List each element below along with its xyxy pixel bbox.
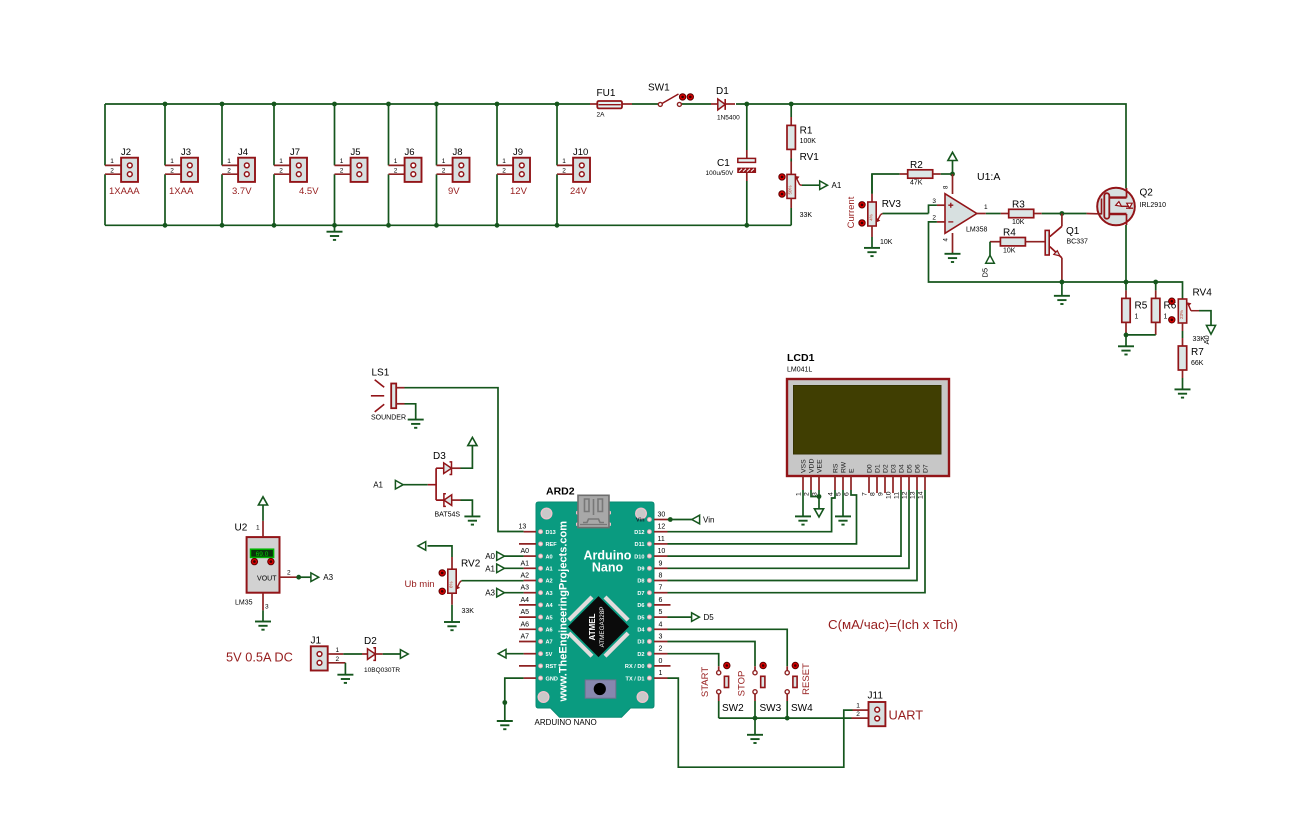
- svg-text:D5: D5: [907, 464, 914, 473]
- svg-text:D2: D2: [637, 652, 644, 658]
- wire LCD D4 to D10: [668, 490, 902, 556]
- ground R7: [1175, 389, 1191, 397]
- svg-text:J4: J4: [238, 147, 248, 158]
- ground RV3: [864, 248, 880, 256]
- connector J8: [437, 147, 470, 197]
- svg-text:SOUNDER: SOUNDER: [371, 415, 406, 422]
- arduino left pin stubs: [519, 532, 536, 678]
- svg-text:8: 8: [870, 492, 877, 496]
- svg-text:A1: A1: [521, 560, 530, 567]
- wire LS1 to D13: [405, 388, 524, 532]
- svg-text:VDD: VDD: [809, 459, 816, 473]
- svg-text:D5: D5: [981, 268, 990, 278]
- svg-text:2: 2: [287, 570, 291, 577]
- junction dots switch rail: [753, 716, 790, 721]
- svg-text:3: 3: [932, 198, 936, 205]
- svg-text:VSS: VSS: [801, 459, 808, 473]
- svg-text:J3: J3: [181, 147, 191, 158]
- svg-text:A3: A3: [485, 589, 495, 598]
- svg-text:A7: A7: [546, 640, 553, 646]
- text 5V 0.5A DC: [226, 650, 293, 665]
- svg-text:SW1: SW1: [648, 83, 670, 94]
- svg-text:A5: A5: [521, 609, 530, 616]
- svg-text:4: 4: [659, 621, 663, 628]
- svg-text:A1: A1: [485, 564, 495, 573]
- svg-text:30: 30: [658, 512, 666, 519]
- svg-text:R7: R7: [1191, 347, 1204, 358]
- resistor R7: [1178, 331, 1204, 389]
- ground U1 pin4: [945, 253, 961, 263]
- svg-text:J5: J5: [351, 147, 361, 158]
- svg-text:SW2: SW2: [722, 703, 744, 714]
- connector J3: [165, 147, 198, 197]
- svg-text:1N5400: 1N5400: [717, 115, 740, 122]
- svg-text:1: 1: [442, 158, 446, 165]
- svg-text:11: 11: [894, 492, 901, 499]
- resistor R1: [787, 104, 816, 159]
- svg-text:R3: R3: [1012, 200, 1025, 211]
- svg-text:3.7V: 3.7V: [232, 186, 252, 197]
- svg-text:4%: 4%: [868, 214, 873, 221]
- resistor R5: [1122, 282, 1148, 335]
- potentiometer RV2: [405, 557, 524, 615]
- resistor R6: [1152, 282, 1177, 335]
- svg-text:Q1: Q1: [1066, 226, 1080, 237]
- svg-text:J11: J11: [868, 691, 884, 702]
- resistor R4: [990, 228, 1045, 255]
- svg-text:1: 1: [1135, 314, 1139, 321]
- svg-text:BC337: BC337: [1067, 239, 1089, 246]
- svg-text:A0: A0: [521, 548, 530, 555]
- svg-text:2: 2: [170, 167, 174, 174]
- wire Q2 source: [1125, 225, 1127, 282]
- svg-text:D0: D0: [867, 464, 874, 473]
- svg-text:1: 1: [340, 158, 344, 165]
- svg-text:U1:A: U1:A: [977, 171, 1000, 183]
- svg-text:FU1: FU1: [597, 88, 616, 99]
- connector J1: [311, 636, 346, 671]
- ground Q1 emitter: [1054, 282, 1070, 304]
- svg-text:A1: A1: [546, 567, 553, 573]
- svg-text:VOUT: VOUT: [257, 575, 277, 582]
- wire LCD E to D11: [668, 490, 857, 544]
- wire LS1 pin2 to ground: [405, 404, 416, 420]
- svg-text:5V: 5V: [546, 652, 553, 658]
- svg-text:14: 14: [918, 491, 925, 499]
- svg-text:2: 2: [279, 167, 283, 174]
- power arrow D3: [461, 437, 478, 468]
- svg-text:6: 6: [844, 492, 851, 496]
- svg-text:D5: D5: [704, 613, 715, 622]
- svg-text:8: 8: [659, 573, 663, 580]
- LCD1 LM041L display: [787, 352, 949, 499]
- svg-text:LS1: LS1: [372, 368, 390, 379]
- svg-text:1: 1: [796, 492, 803, 496]
- svg-text:1: 1: [984, 204, 988, 211]
- svg-text:D1: D1: [716, 86, 729, 97]
- svg-text:D2: D2: [883, 464, 890, 473]
- terminal 5V (arduino, left arrow): [498, 649, 523, 658]
- wire LCD D6 to D8: [668, 490, 918, 581]
- potentiometer RV3: [846, 174, 929, 248]
- arduino usb connector: [576, 495, 611, 527]
- terminal Vin (arduino): [668, 515, 715, 524]
- connector J6: [389, 147, 422, 182]
- svg-text:1: 1: [562, 158, 566, 165]
- svg-text:2: 2: [932, 215, 936, 222]
- svg-text:RESET: RESET: [801, 663, 812, 695]
- svg-text:RV4: RV4: [1193, 288, 1213, 299]
- svg-text:J6: J6: [405, 147, 415, 158]
- svg-text:100u/50V: 100u/50V: [706, 170, 734, 177]
- resistor R2: [872, 160, 953, 194]
- svg-text:100K: 100K: [800, 138, 817, 145]
- svg-text:ARD2: ARD2: [546, 486, 575, 498]
- svg-text:12: 12: [902, 491, 909, 499]
- mosfet Q2: [1097, 188, 1166, 226]
- svg-text:A1: A1: [832, 181, 842, 190]
- svg-text:ATMEGA328P: ATMEGA328P: [599, 607, 606, 648]
- svg-text:J1: J1: [311, 636, 322, 647]
- svg-text:LM35: LM35: [235, 600, 253, 607]
- wire R3 to gate: [1042, 213, 1087, 215]
- svg-text:RV2: RV2: [461, 559, 481, 570]
- svg-text:33K: 33K: [462, 608, 475, 615]
- svg-text:A1: A1: [373, 481, 383, 490]
- svg-text:A2: A2: [521, 573, 530, 580]
- svg-text:50%: 50%: [788, 185, 793, 194]
- ground switch rail: [747, 718, 763, 743]
- svg-text:12: 12: [658, 524, 666, 531]
- svg-text:A6: A6: [546, 628, 553, 634]
- svg-text:J7: J7: [290, 147, 300, 158]
- terminal A1 (RV1 wiper): [820, 181, 842, 190]
- svg-text:10: 10: [658, 548, 666, 555]
- ground battery rail: [327, 225, 343, 240]
- svg-text:R1: R1: [800, 126, 813, 137]
- svg-text:U2: U2: [235, 523, 248, 534]
- arduino right pin labels: [625, 518, 645, 683]
- svg-text:10K: 10K: [1003, 247, 1016, 254]
- wire op-amp -input feedback: [929, 222, 1183, 299]
- svg-text:1: 1: [279, 158, 283, 165]
- svg-text:R4: R4: [1003, 228, 1016, 239]
- svg-text:www.TheEngineeringProjects.com: www.TheEngineeringProjects.com: [558, 521, 570, 703]
- connector J2: [105, 147, 140, 197]
- wire TX/D1 to J11: [668, 678, 853, 767]
- connector J11: [852, 691, 924, 727]
- svg-text:5: 5: [836, 492, 843, 496]
- connector J10: [557, 147, 590, 197]
- ground J1 pin2: [337, 663, 353, 683]
- potentiometer RV4: [1169, 288, 1213, 344]
- svg-text:D2: D2: [364, 636, 377, 647]
- svg-text:1: 1: [256, 525, 260, 532]
- diode D2: [343, 636, 400, 674]
- connector J5: [335, 147, 368, 182]
- svg-text:START: START: [700, 667, 711, 697]
- svg-text:1XAA: 1XAA: [169, 186, 194, 197]
- svg-text:1: 1: [110, 158, 114, 165]
- terminal A0 (RV4 wiper): [1202, 325, 1216, 344]
- svg-text:UART: UART: [889, 708, 924, 723]
- svg-text:3: 3: [265, 604, 269, 611]
- svg-text:5: 5: [659, 609, 663, 616]
- ground LCD VSS: [795, 490, 811, 525]
- wire battery bottom rail: [105, 224, 791, 226]
- terminal A0 (arduino): [485, 552, 523, 561]
- svg-text:SW4: SW4: [791, 703, 813, 714]
- svg-text:1: 1: [227, 158, 231, 165]
- ground LS1: [408, 420, 424, 428]
- ground RV2: [444, 605, 460, 630]
- svg-text:1: 1: [856, 703, 860, 710]
- svg-text:1: 1: [1164, 314, 1168, 321]
- svg-text:2: 2: [394, 167, 398, 174]
- svg-text:D1: D1: [875, 464, 882, 473]
- svg-text:2A: 2A: [597, 112, 606, 119]
- svg-text:C(мА/час)=(Ich x Tch): C(мА/час)=(Ich x Tch): [828, 617, 958, 632]
- svg-text:1: 1: [336, 647, 340, 654]
- junction dots bottom rail: [163, 223, 750, 228]
- ground LCD RW: [835, 490, 851, 525]
- svg-text:R5: R5: [1135, 301, 1148, 312]
- switch SW2: [700, 662, 744, 718]
- junction dot R3/Q1: [1060, 211, 1065, 216]
- junction dot R5 bottom: [1124, 333, 1129, 338]
- power arrow U1 V+: [948, 152, 957, 174]
- svg-text:7: 7: [862, 492, 869, 496]
- wire LCD VDD/VEE to power: [811, 490, 824, 517]
- svg-text:D7: D7: [637, 591, 644, 597]
- wire LCD D5 to D9: [668, 490, 910, 568]
- diode D1: [711, 86, 740, 122]
- svg-text:9V: 9V: [448, 186, 460, 197]
- connector J9: [497, 147, 530, 197]
- svg-text:6: 6: [659, 597, 663, 604]
- svg-text:Vin: Vin: [703, 516, 714, 525]
- svg-text:69.0: 69.0: [256, 551, 269, 558]
- svg-text:A4: A4: [521, 597, 530, 604]
- svg-text:D13: D13: [546, 530, 556, 536]
- svg-text:LM041L: LM041L: [787, 367, 812, 374]
- svg-text:Q2: Q2: [1140, 188, 1154, 199]
- svg-text:Nano: Nano: [592, 561, 624, 575]
- arduino pin pads: [539, 518, 652, 681]
- svg-text:2: 2: [562, 167, 566, 174]
- junction dot Q1 emitter: [1060, 280, 1065, 285]
- svg-text:24V: 24V: [570, 186, 588, 197]
- wire arduino GND to ground: [497, 678, 524, 729]
- arduino right pin stubs: [654, 520, 671, 679]
- text formula: [828, 617, 958, 632]
- svg-text:D3: D3: [433, 451, 446, 462]
- svg-text:RV1: RV1: [800, 152, 820, 163]
- svg-text:STOP: STOP: [737, 671, 748, 697]
- svg-text:J10: J10: [573, 147, 588, 158]
- svg-text:4.5V: 4.5V: [299, 186, 319, 197]
- svg-text:A7: A7: [521, 634, 530, 641]
- svg-text:4: 4: [828, 492, 835, 496]
- ground D3: [461, 500, 481, 525]
- wire top power rail: [105, 104, 1126, 189]
- svg-text:10: 10: [886, 491, 893, 499]
- svg-text:RX / D0: RX / D0: [625, 664, 645, 670]
- svg-text:1XAAA: 1XAAA: [109, 186, 140, 197]
- svg-text:2: 2: [110, 167, 114, 174]
- wire D3 to SW3: [668, 642, 756, 667]
- sounder LS1: [371, 368, 406, 422]
- svg-text:47K: 47K: [910, 180, 923, 187]
- svg-text:10K: 10K: [1012, 219, 1025, 226]
- svg-text:RST: RST: [546, 664, 558, 670]
- wire switch common rail: [719, 717, 852, 719]
- svg-text:Vin: Vin: [636, 518, 645, 524]
- svg-text:13: 13: [910, 491, 917, 499]
- terminal D5 (R4): [981, 242, 995, 278]
- svg-text:A5: A5: [546, 615, 553, 621]
- svg-text:REF: REF: [546, 542, 558, 548]
- svg-text:ARDUINO NANO: ARDUINO NANO: [535, 718, 597, 727]
- svg-text:SW3: SW3: [760, 703, 782, 714]
- svg-text:2: 2: [442, 167, 446, 174]
- svg-text:E: E: [849, 468, 856, 473]
- svg-text:A0: A0: [485, 552, 495, 561]
- svg-text:0: 0: [659, 658, 663, 665]
- wire op-amp output: [986, 213, 1001, 215]
- terminal D2 output: [383, 650, 408, 659]
- svg-text:J2: J2: [121, 147, 131, 158]
- switch SW3: [737, 662, 782, 718]
- transistor Q1: [1045, 214, 1098, 283]
- svg-text:A3: A3: [546, 591, 553, 597]
- power arrow U2: [258, 497, 267, 521]
- terminal D5 (arduino right): [668, 613, 715, 622]
- svg-text:D12: D12: [634, 530, 644, 536]
- svg-text:A3: A3: [323, 573, 333, 582]
- svg-text:11: 11: [658, 536, 665, 543]
- svg-text:D6: D6: [915, 464, 922, 473]
- ground U2: [255, 610, 271, 629]
- svg-text:D4: D4: [637, 628, 645, 634]
- svg-text:2: 2: [227, 167, 231, 174]
- svg-text:ATMEL: ATMEL: [588, 613, 597, 640]
- svg-text:10BQ030TR: 10BQ030TR: [364, 667, 400, 674]
- connector J4: [222, 147, 255, 197]
- svg-text:2: 2: [856, 711, 860, 718]
- arduino ARD2 board: [535, 486, 655, 728]
- terminal A1 (to D3): [373, 480, 428, 489]
- wire D2 to SW2: [668, 654, 719, 667]
- svg-text:10K: 10K: [880, 239, 893, 246]
- svg-text:A0: A0: [1202, 335, 1211, 344]
- wire LCD D7 to D7: [668, 490, 926, 593]
- svg-text:2: 2: [336, 656, 340, 663]
- svg-text:66K: 66K: [1191, 360, 1204, 367]
- svg-text:D11: D11: [635, 542, 645, 548]
- svg-text:R2: R2: [910, 160, 923, 171]
- svg-text:RS: RS: [833, 463, 840, 473]
- switch SW1: [648, 83, 694, 107]
- terminal RV2 top (left arrow): [418, 542, 452, 557]
- svg-text:A0: A0: [546, 554, 553, 560]
- svg-text:LCD1: LCD1: [787, 352, 815, 364]
- wire LCD RS to D12: [668, 490, 836, 532]
- svg-text:A2: A2: [546, 579, 553, 585]
- svg-text:23%: 23%: [1179, 310, 1184, 319]
- svg-text:33K: 33K: [800, 212, 813, 219]
- svg-text:9: 9: [659, 560, 663, 567]
- junction dot R2/V+: [950, 172, 955, 177]
- sensor U2 LM35: [235, 521, 298, 611]
- svg-text:3: 3: [659, 634, 663, 641]
- arduino pin number labels left: [519, 524, 530, 641]
- diode D3 BAT54S: [428, 451, 461, 519]
- svg-text:VEE: VEE: [817, 459, 824, 473]
- svg-text:RW: RW: [841, 461, 848, 473]
- connector J7: [274, 147, 319, 197]
- svg-text:6%: 6%: [448, 581, 453, 588]
- arduino board titles: [558, 521, 632, 703]
- svg-text:D9: D9: [637, 567, 644, 573]
- arduino left pin labels: [546, 530, 558, 682]
- svg-text:A3: A3: [521, 585, 530, 592]
- svg-text:2: 2: [502, 167, 506, 174]
- capacitor C1: [706, 104, 756, 225]
- svg-text:1: 1: [170, 158, 174, 165]
- svg-text:5V 0.5A DC: 5V 0.5A DC: [226, 650, 293, 665]
- svg-text:D8: D8: [637, 579, 644, 585]
- wire R5/R6 bottom: [1126, 334, 1156, 336]
- svg-text:12V: 12V: [510, 186, 528, 197]
- wire op-amp +input: [929, 205, 937, 213]
- svg-text:A4: A4: [546, 603, 554, 609]
- svg-text:9: 9: [878, 492, 885, 496]
- svg-text:7: 7: [659, 585, 663, 592]
- svg-text:D10: D10: [634, 554, 644, 560]
- svg-text:LM358: LM358: [966, 227, 988, 234]
- svg-text:J9: J9: [513, 147, 523, 158]
- junction dots feedback rail: [1124, 280, 1159, 285]
- svg-text:TX / D1: TX / D1: [626, 676, 645, 682]
- wire battery column verticals: [105, 104, 557, 225]
- svg-text:1: 1: [659, 670, 663, 677]
- ground R5/R6: [1118, 335, 1134, 355]
- svg-text:Current: Current: [846, 196, 857, 228]
- resistor R3: [1001, 200, 1042, 227]
- svg-text:A6: A6: [521, 621, 530, 628]
- svg-text:2: 2: [340, 167, 344, 174]
- terminal A3 (arduino): [485, 588, 523, 597]
- svg-text:C1: C1: [717, 158, 730, 169]
- switch SW4: [785, 662, 813, 718]
- wire D4 to SW4: [668, 629, 788, 666]
- svg-text:D7: D7: [923, 464, 930, 473]
- svg-text:GND: GND: [546, 676, 558, 682]
- svg-text:D5: D5: [637, 615, 644, 621]
- arduino pin number labels right: [658, 512, 666, 678]
- terminal A1 (arduino): [485, 564, 523, 573]
- fuse FU1: [590, 88, 632, 119]
- svg-text:BAT54S: BAT54S: [435, 512, 461, 519]
- wire U2 VOUT to A3 terminal: [296, 573, 333, 582]
- svg-text:2: 2: [659, 646, 663, 653]
- op-amp U1:A: [932, 171, 1000, 253]
- svg-text:IRL2910: IRL2910: [1140, 202, 1167, 209]
- svg-text:13: 13: [519, 524, 527, 531]
- svg-text:Ub min: Ub min: [405, 579, 435, 590]
- svg-text:D3: D3: [637, 640, 644, 646]
